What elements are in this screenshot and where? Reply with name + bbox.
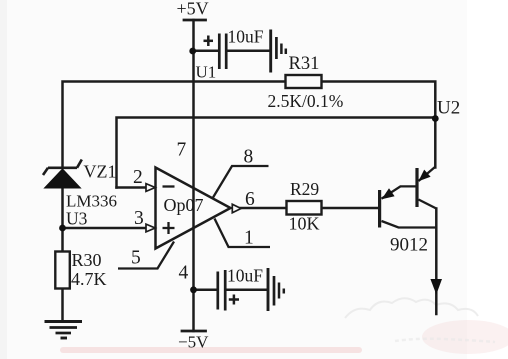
- svg-text:4.7K: 4.7K: [71, 269, 107, 289]
- svg-text:4: 4: [179, 263, 189, 284]
- svg-text:9012: 9012: [390, 235, 428, 256]
- pin3 input arrow: [146, 224, 155, 232]
- minus sign inside: [163, 185, 175, 187]
- svg-text:5: 5: [131, 248, 141, 269]
- svg-text:7: 7: [177, 140, 187, 161]
- svg-text:U3: U3: [66, 209, 88, 229]
- wire top cap left lead: [194, 50, 219, 53]
- svg-text:3: 3: [134, 208, 144, 229]
- wire top rail U1 right segment to U2: [322, 82, 436, 168]
- svg-text:6: 6: [245, 189, 255, 210]
- transistor Q1 9012 (left): [380, 186, 437, 227]
- wire top cap right lead: [227, 50, 270, 53]
- svg-text:U2: U2: [437, 98, 460, 119]
- pin 8 lead: [213, 166, 269, 198]
- svg-text:Op07: Op07: [164, 195, 204, 215]
- svg-text:10K: 10K: [289, 214, 320, 234]
- svg-text:8: 8: [244, 147, 254, 168]
- wire op-amp output to R29: [241, 207, 287, 210]
- junction dot U2 node: [432, 115, 439, 122]
- wire zener to R30: [61, 188, 64, 252]
- svg-text:2.5K/0.1%: 2.5K/0.1%: [268, 91, 344, 111]
- wire Q1 collector to down-arrow line: [435, 209, 438, 315]
- wire pin3 horizontal: [63, 227, 147, 230]
- resistor R29: [287, 201, 322, 215]
- wire bottom cap right lead: [227, 289, 267, 292]
- svg-text:U1: U1: [196, 63, 217, 82]
- C1 plus sign: [204, 36, 214, 47]
- +5V rail bar: [184, 19, 206, 22]
- svg-text:VZ1: VZ1: [84, 162, 117, 182]
- resistor R30: [55, 252, 70, 289]
- svg-text:R29: R29: [290, 179, 319, 199]
- ground (rotated) for C2: [268, 268, 284, 311]
- svg-text:R31: R31: [289, 54, 320, 74]
- wire main vertical +5V to -5V through op-amp: [192, 20, 195, 331]
- resistor R31: [286, 75, 322, 88]
- wire pin2 horizontal: [117, 186, 147, 189]
- capacitor C1 10uF top : plates: [219, 34, 226, 70]
- svg-text:10uF: 10uF: [228, 27, 264, 47]
- pin2 input arrow: [146, 184, 155, 192]
- pin 1 lead: [215, 219, 271, 248]
- -5V rail bar: [182, 330, 206, 333]
- zener diode VZ1: [43, 160, 82, 176]
- svg-text:1: 1: [244, 228, 254, 249]
- capacitor C2 10uF bottom : plates: [218, 270, 225, 311]
- C2 plus sign: [229, 295, 239, 305]
- wire R30 to ground: [61, 289, 64, 322]
- svg-text:2: 2: [133, 167, 143, 188]
- svg-text:−5V: −5V: [178, 333, 209, 352]
- svg-text:+5V: +5V: [177, 0, 209, 19]
- op-amp Op07: [156, 168, 231, 249]
- wire top rail U1 left segment: [63, 82, 286, 168]
- ground (rotated) for C1: [271, 30, 286, 73]
- wire bottom cap left lead: [194, 289, 217, 292]
- junction dot U3 node: [59, 225, 66, 232]
- Q1 emitter arrow: [382, 188, 395, 199]
- junction dot at pin 4 (-5V rail): [190, 286, 197, 293]
- plus sign inside: [163, 222, 175, 234]
- svg-text:10uF: 10uF: [227, 266, 263, 286]
- pin6 output arrow: [232, 204, 241, 213]
- wire feedback rail to U2: [117, 118, 436, 188]
- pin 5 lead: [118, 242, 174, 269]
- svg-text:R30: R30: [72, 250, 102, 270]
- ground symbol bottom left: [45, 322, 83, 339]
- Q2 emitter arrow: [418, 170, 430, 182]
- transistor Q2 9012 (right): [417, 167, 436, 209]
- scan background tints: [0, 0, 7, 359]
- wire R29 to Q1 base: [322, 207, 379, 210]
- junction dot U1 node: [189, 48, 196, 55]
- collector down arrow: [430, 279, 442, 295]
